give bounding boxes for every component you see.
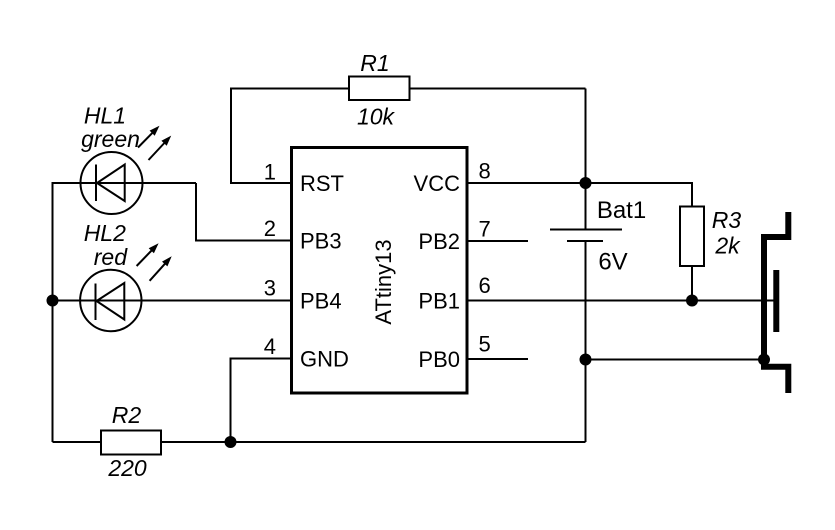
wire: PB1 pin 6 row to button contact [467, 300, 776, 302]
op-amp U1 : ATtiny13 IC body [292, 148, 468, 394]
LED HL1 triangle [97, 165, 125, 202]
svg-text:red: red [94, 244, 128, 270]
svg-text:PB2: PB2 [418, 229, 460, 254]
wire: PB2 pin 7 stub [467, 240, 528, 242]
wire: GND pin 4 to bottom [231, 359, 292, 443]
svg-text:2k: 2k [714, 233, 741, 259]
wire: HL1 row horizontal [53, 182, 197, 184]
svg-text:VCC: VCC [414, 171, 461, 196]
svg-text:3: 3 [264, 276, 276, 301]
svg-text:R3: R3 [712, 207, 742, 233]
svg-text:1: 1 [264, 160, 276, 185]
junction dot left rail / HL2 [47, 295, 59, 307]
wire: HL2 row to pin 3 [53, 300, 292, 302]
wire: R3 bottom lead [691, 265, 693, 301]
svg-text:5: 5 [479, 332, 491, 357]
svg-text:GND: GND [300, 347, 349, 372]
svg-text:HL2: HL2 [84, 220, 126, 246]
LED HL1 arrow 1 [138, 126, 160, 148]
wire: loop left vertical down to RST [230, 88, 232, 184]
svg-text:220: 220 [107, 455, 147, 481]
svg-text:RST: RST [300, 171, 344, 196]
svg-text:R2: R2 [112, 402, 142, 428]
junction dot VCC rail [580, 177, 592, 189]
svg-text:4: 4 [264, 334, 276, 359]
svg-text:6V: 6V [598, 249, 627, 276]
wire: rail to button row [586, 359, 765, 361]
wire: left rail vertical [52, 182, 54, 442]
junction dot R3 bottom / PB1 [686, 295, 698, 307]
svg-text:Bat1: Bat1 [597, 197, 646, 224]
svg-text:PB0: PB0 [418, 347, 460, 372]
junction dot GND bottom [225, 436, 237, 448]
pushbutton SB1 body [764, 212, 788, 393]
svg-text:8: 8 [479, 159, 491, 184]
svg-text:10k: 10k [357, 104, 396, 130]
wire: top loop horizontal (R1 net) [231, 88, 586, 90]
LED HL1 circle [81, 152, 143, 214]
wire: VCC pin 8 to rail and to R3 top [467, 183, 692, 207]
junction dot button bottom [758, 354, 770, 366]
resistor R3 (vertical) [680, 207, 704, 267]
svg-text:green: green [81, 126, 140, 152]
svg-text:ATtiny13: ATtiny13 [371, 239, 396, 324]
resistor R2 [101, 431, 161, 455]
wire: PB0 pin 5 stub [467, 358, 528, 360]
wire: bottom horizontal rail [53, 441, 586, 443]
LED HL2 arrow 1 [137, 243, 159, 266]
svg-text:2: 2 [264, 216, 276, 241]
battery Bat1 plates [550, 229, 622, 231]
svg-text:R1: R1 [360, 50, 389, 76]
LED HL2 arrow 2 [150, 256, 172, 281]
svg-text:HL1: HL1 [84, 103, 126, 129]
LED HL2 circle [80, 270, 141, 331]
svg-text:7: 7 [479, 217, 491, 242]
wire: right rail above battery [585, 89, 587, 229]
junction dot rail / button row [580, 354, 592, 366]
wire: RST pin 1 horizontal [230, 182, 291, 184]
pushbutton contact bar [773, 270, 779, 332]
LED HL1 arrow 2 [149, 136, 172, 160]
svg-text:PB1: PB1 [418, 289, 460, 314]
LED HL2 triangle [97, 283, 125, 320]
LED HL2 cathode bar [95, 284, 97, 321]
wire: right rail below battery [585, 242, 587, 442]
svg-text:6: 6 [479, 273, 491, 298]
wire: HL1 to pin 2 (vertical + horizontal) [196, 183, 291, 241]
svg-text:PB3: PB3 [300, 229, 342, 254]
svg-text:PB4: PB4 [300, 289, 342, 314]
resistor R1 [349, 77, 410, 101]
LED HL1 cathode bar [95, 165, 97, 202]
